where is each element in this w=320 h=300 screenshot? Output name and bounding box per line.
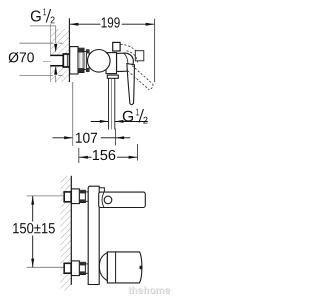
lever arm (solid, down position) (127, 64, 134, 105)
ring 2 (86, 50, 89, 72)
dimension 199: line + arrows (70, 23, 155, 26)
supply pipe bore (46, 56, 67, 65)
dimension 150±15: vertical line + arrows (31, 196, 34, 267)
label G 1/2 (spigot) (123, 109, 148, 124)
dimension text 107 (76, 133, 97, 143)
label G 1/2 (top) (31, 9, 55, 24)
escutcheon (side view) (70, 47, 78, 74)
lever bar (front view) (99, 192, 146, 207)
Ø70 label (9, 52, 34, 62)
pipe centerline dash (43, 61, 51, 63)
dimension 199: right extension line (154, 19, 156, 82)
neck (bottom connection) (85, 264, 88, 273)
union nut (side view) (78, 48, 84, 72)
dimension 107: right extension line (115, 129, 117, 146)
watermark thehome (128, 286, 170, 294)
union nut (top connection) (79, 190, 85, 202)
cap square (stop screw) (113, 42, 120, 51)
body column (front view) (88, 186, 99, 284)
in-wall fitting square (bottom connection) (64, 263, 71, 273)
in-wall fitting square (top connection) (64, 192, 71, 202)
leader for G 1/2 (top): horizontal + vertical + arrow down (30, 26, 57, 53)
neck (top connection) (85, 192, 88, 201)
in-wall fitting (top view) (63, 54, 69, 67)
union nut (bottom connection) (79, 262, 85, 274)
cartridge step (front view) (99, 188, 104, 193)
lever bar circle (104, 196, 112, 204)
dimension text 199 (102, 17, 120, 27)
wall hatch (top view) (51, 24, 70, 82)
lever boss (117, 53, 134, 71)
spigot G1/2 callout arrows (91, 120, 148, 123)
outlet cylinder (front view) (107, 252, 142, 283)
dashed cap square (raised position) (135, 51, 144, 61)
outlet flange (107, 75, 118, 78)
lever bar fillet curve (102, 193, 104, 208)
ring 1 (84, 52, 86, 70)
Ø70 lower arrow (points up at pipe) (54, 66, 57, 75)
Ø70 extension lines (20, 42, 63, 44)
supply line top (150 ext) (27, 195, 64, 197)
body column (cartridge housing) (106, 53, 117, 74)
dimension text 150±15 (13, 223, 55, 233)
dimension 107: outside arrows (53, 136, 131, 139)
107 left extension line (72, 82, 74, 146)
dimension text 156 (93, 150, 115, 160)
outlet face tick (139, 266, 142, 270)
wall hatch (bottom view) (60, 176, 71, 291)
escutcheon (top connection) (72, 189, 80, 204)
dashed lever arm (raised position) (128, 66, 153, 90)
supply line bottom (150 ext) (27, 266, 64, 268)
connection ball (circle) (88, 50, 111, 73)
outlet cone (front view) (99, 252, 107, 280)
dimension 156: extension lines (79, 144, 138, 163)
wall surface line (bottom view) (70, 176, 72, 285)
Ø70 dimension line (vertical, gray) (55, 76, 57, 83)
supply pipe lines (top view) (50, 54, 66, 56)
wall surface line (top view) / 199 left extension (68, 18, 70, 82)
lever boss inner curve (124, 53, 128, 71)
dimension 156: line + arrows (79, 156, 137, 159)
dashed arc (cap travel) (121, 45, 136, 51)
dashed boss outline (raised) (127, 51, 138, 63)
escutcheon (bottom connection) (72, 261, 80, 276)
outlet spigot (hose thread) (109, 78, 115, 129)
